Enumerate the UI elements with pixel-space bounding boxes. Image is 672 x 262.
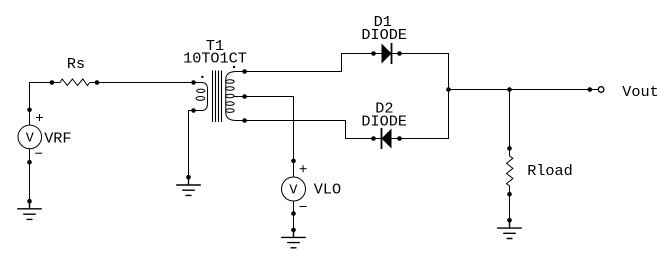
wire output rail	[449, 89, 599, 91]
node junction dot below VLO	[291, 211, 296, 216]
node junction dot below VRF	[27, 160, 32, 165]
transformer primary winding outline	[194, 83, 208, 111]
node junction dot Rs right	[95, 80, 100, 85]
svg-text:VRF: VRF	[44, 129, 71, 147]
wire D1 cathode to output node	[392, 54, 449, 90]
ground symbol below transformer	[176, 177, 201, 195]
ground symbol below VRF	[17, 201, 42, 219]
wire D2 anode to output node	[392, 90, 449, 139]
voltage source VRF	[18, 125, 42, 149]
node junction dot secondary top	[242, 69, 247, 74]
node junction dot D2 anode	[397, 136, 402, 141]
node junction dot before Vout terminal	[588, 87, 593, 92]
resistor Rload	[507, 156, 513, 186]
svg-text:Rload: Rload	[527, 162, 573, 180]
node junction dot at Rload ground	[507, 218, 512, 223]
svg-text:Vout: Vout	[622, 83, 658, 101]
resistor Rs	[60, 79, 90, 86]
transformer secondary turn loop 2	[226, 87, 235, 91]
node junction dot Rs left	[50, 80, 55, 85]
open terminal Vout	[598, 87, 604, 93]
node junction dot D2 cathode side	[371, 136, 376, 141]
wire Rload bottom lead	[509, 186, 511, 220]
wire secondary bottom to D2	[245, 121, 374, 139]
wire D1 anode lead	[374, 53, 382, 55]
transformer secondary turn loop 5	[226, 109, 235, 113]
transformer primary turn loop 1	[197, 89, 205, 92]
diode D1	[382, 44, 392, 64]
diode D2	[382, 129, 392, 149]
node junction dot above VRF	[27, 108, 32, 113]
minus sign of VRF	[35, 152, 42, 154]
node junction dot primary bottom	[191, 108, 196, 113]
wire below VLO	[293, 201, 295, 230]
plus sign of VLO	[300, 165, 307, 172]
wire secondary center tap stub	[234, 96, 245, 98]
svg-text:V: V	[26, 132, 34, 147]
wire below VRF	[29, 149, 31, 202]
wire horizontal from corner to Rs left lead	[29, 82, 60, 84]
ground symbol below Rload	[497, 220, 522, 238]
wire D2 cathode lead	[374, 138, 382, 140]
node junction dot at VLO ground	[291, 228, 296, 233]
svg-text:VLO: VLO	[314, 180, 341, 198]
transformer T1 core	[213, 71, 222, 123]
wire secondary top to D1	[245, 54, 374, 72]
node junction dot diode output join	[446, 87, 451, 92]
svg-text:DIODE: DIODE	[361, 112, 407, 130]
transformer secondary winding outline	[226, 72, 245, 121]
node junction dot D1 cathode	[397, 51, 402, 56]
transformer secondary turn loop 3	[226, 94, 235, 98]
node junction dot at VRF ground	[27, 199, 32, 204]
wire primary bottom to ground	[189, 111, 194, 178]
transformer primary turn loop 2	[196, 97, 205, 101]
diode D1 cathode bar	[391, 43, 393, 64]
minus sign of VLO	[300, 206, 307, 208]
ground symbol below VLO	[281, 230, 306, 248]
plus sign of VRF	[36, 114, 43, 121]
node junction dot secondary bottom	[242, 118, 247, 123]
voltage source VLO	[282, 177, 306, 201]
node junction dot primary top	[191, 80, 196, 85]
svg-text:Rs: Rs	[67, 55, 85, 73]
svg-text:V: V	[289, 184, 297, 199]
transformer primary phase dot	[201, 76, 203, 78]
node junction dot at transformer ground	[186, 175, 191, 180]
wire from output rail down to Rload	[509, 90, 511, 157]
transformer secondary turn loop 4	[226, 102, 235, 106]
node junction dot at Rload tap	[507, 87, 512, 92]
node junction dot secondary center tap	[242, 94, 247, 99]
wire from Rs to transformer primary top	[90, 82, 194, 84]
diode D2 cathode bar	[381, 128, 383, 149]
wire top-left corner from VRF up to Rs	[29, 83, 31, 126]
wire secondary center tap to VLO	[245, 97, 294, 178]
node junction dot above VLO	[291, 159, 296, 164]
transformer secondary phase dot	[233, 66, 235, 68]
node junction dot Rload bottom	[507, 192, 512, 197]
transformer secondary turn loop 1	[226, 80, 235, 84]
svg-text:10TO1CT: 10TO1CT	[183, 50, 247, 68]
node junction dot Rload top	[507, 146, 512, 151]
svg-text:DIODE: DIODE	[361, 26, 407, 44]
node junction dot D1 anode	[371, 51, 376, 56]
